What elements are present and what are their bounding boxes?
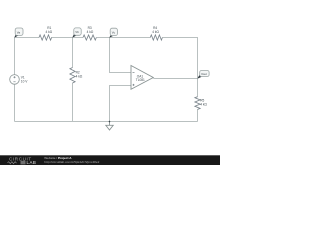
wire bottom rail [15,121,198,123]
resistor R2 (vertical) [70,68,83,84]
svg-text:4 kΩ: 4 kΩ [87,30,94,34]
svg-text:4 kΩ: 4 kΩ [46,30,53,34]
wire R3 to node B [96,37,109,39]
wire R5 down to bottom rail [197,110,199,122]
wire V1 negative to bottom rail [14,84,16,121]
wire top-left vertical (V1 to top rail) [14,38,16,75]
resistor R4 [150,26,162,40]
net flag Vout [197,71,209,79]
wire op-amp output to Vout node [153,78,197,80]
net flag Vc (node B) [109,28,117,38]
CircuitLab logo [8,156,37,165]
svg-text:Vc: Vc [112,31,116,35]
voltage source V1 [10,75,29,85]
wire Vout node down to R5 [197,79,199,97]
svg-text:LAB: LAB [27,160,37,165]
wire op-amp non-inverting input to ground column [110,86,131,122]
svg-text:Vout: Vout [201,72,207,76]
svg-text:4 kΩ: 4 kΩ [200,103,207,107]
svg-text:Vb: Vb [75,30,79,34]
resistor R5 (vertical) [195,97,208,110]
svg-text:4 kΩ: 4 kΩ [152,30,159,34]
net flag Vb (node A) [72,28,81,38]
resistor R3 [83,26,96,40]
wire R4 to top-right corner and down to Vout node [162,38,197,79]
svg-text:http://circuitlab.com/c/5pk4vb: http://circuitlab.com/c/5pk4vb72jmx48e2 [44,160,99,164]
op-amp OA1 [131,66,153,90]
resistor R1 [39,26,53,40]
wire node B to R4 [110,37,151,39]
svg-text:4 kΩ: 4 kΩ [76,74,83,78]
junction dot node B bottom (ground tie) [109,121,111,123]
wire R2 down to bottom rail [72,83,74,122]
watermark bar [0,155,220,165]
net flag Va (node at top-left) [14,28,23,38]
svg-text:10 V: 10 V [21,80,28,84]
wire top rail left lead to R1 [15,37,40,39]
wire R1 to node A [51,37,72,39]
svg-text:Va: Va [17,30,21,34]
ground [106,122,113,131]
wire node A down to R2 [72,38,74,68]
wire node B down and to op-amp inverting input [110,38,131,73]
wire node A to R3 [73,37,84,39]
svg-text:TL081: TL081 [136,78,145,82]
